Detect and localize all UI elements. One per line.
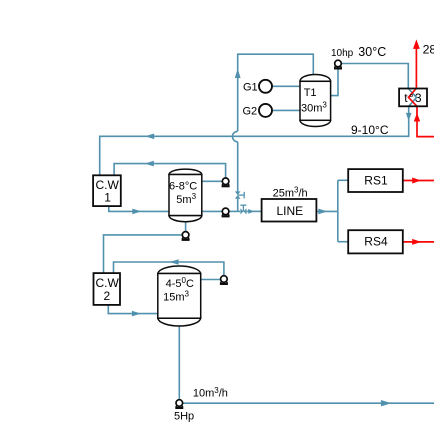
pump P5 (5Hp bottom) <box>175 400 183 408</box>
wire: G2 to T1 <box>272 109 300 111</box>
blue flow arrows <box>132 69 412 407</box>
wire: pump P2 to junction and valve V2 <box>229 210 240 212</box>
jump arc over 9-10C line <box>232 131 237 142</box>
pump P1 (tank 6-8 top) <box>222 178 230 186</box>
circle G2 <box>259 104 272 117</box>
svg-text:1: 1 <box>104 190 111 204</box>
wire: valve V1 up to jump arc <box>237 142 239 192</box>
arrow right on 5Hp discharge <box>381 400 391 406</box>
arrow up top (28) <box>413 39 420 49</box>
wire: 10hp pump to HX t3 top <box>342 64 409 89</box>
arrow right valve to LINE <box>248 209 254 214</box>
arrow right RS1 <box>412 178 421 184</box>
valve V1 (vertical) on riser <box>235 191 241 198</box>
wire: riser junction to valve V1 <box>237 199 239 212</box>
arrow right LINE outlet <box>318 209 327 215</box>
wire: 5Hp pump discharge to right edge <box>183 402 434 404</box>
svg-text:T1: T1 <box>304 87 317 99</box>
wire: C.W1 loop upper line <box>114 164 226 178</box>
pump P2 (tank 6-8 bottom) <box>222 208 230 216</box>
circle G1 <box>259 80 272 93</box>
wire: HX internal blue crossing <box>408 89 416 107</box>
RS1 box <box>348 169 403 192</box>
arrow up into HX bottom <box>414 113 420 122</box>
wire: tank 6-8 right outlet to pump P2 <box>202 210 222 212</box>
arrow left on 9-10C line <box>145 134 154 140</box>
wire: tank 4-5 bottom to 5Hp pump <box>178 326 180 399</box>
svg-text:28: 28 <box>423 42 434 56</box>
wire: branch to RS1 <box>338 179 348 181</box>
wire: HX internal red crossing <box>409 89 418 107</box>
svg-text:30°C: 30°C <box>358 45 386 59</box>
svg-text:G2: G2 <box>243 105 258 117</box>
svg-text:t°3: t°3 <box>404 91 423 105</box>
svg-text:10m3/h: 10m3/h <box>193 386 228 400</box>
arrow left on C.W1 loop line <box>145 161 154 167</box>
C.W 1 box <box>93 175 121 206</box>
svg-text:10hp: 10hp <box>331 48 354 59</box>
svg-text:25m3/h: 25m3/h <box>273 186 308 200</box>
tank T1 <box>300 75 331 127</box>
svg-text:6-8°C: 6-8°C <box>169 180 197 192</box>
tank 6-8°C <box>169 169 202 222</box>
wire: C.W1 bottom to tank 6-8 left <box>109 206 169 211</box>
svg-text:RS1: RS1 <box>364 173 388 187</box>
arrow right RS4 <box>412 239 421 245</box>
wire: split header vertical <box>337 180 339 241</box>
wire: valve V2 to LINE box inlet <box>247 210 262 212</box>
arrow up on supply riser <box>235 69 241 79</box>
heat exchanger t°3 <box>399 89 427 107</box>
svg-text:LINE: LINE <box>277 204 304 218</box>
wire: branch to RS4 <box>338 241 348 243</box>
pump P4 (tank 4-5 right) <box>220 276 228 284</box>
pump 10hp <box>334 60 342 68</box>
svg-text:4-50C: 4-50C <box>166 276 194 290</box>
wire: pump P3 to C.W 2 top <box>104 235 183 273</box>
arrow right C.W2 to tank <box>132 311 141 317</box>
wire: C.W2 loop upper line from pump P4 <box>114 262 224 276</box>
svg-text:5Hp: 5Hp <box>174 411 194 422</box>
pump P3 (below tank 6-8) <box>182 232 190 240</box>
wire: HX bottom to 9-10C return line to C.W 1 <box>100 106 409 175</box>
wire: tank 6-8 to pump P1 <box>202 180 222 182</box>
wire: G1 to T1 <box>272 85 300 87</box>
svg-text:2: 2 <box>104 289 111 303</box>
C.W 2 box <box>94 273 121 305</box>
arrow right C.W1 to tank <box>132 209 141 215</box>
RS4 box <box>348 230 403 253</box>
valve V2 (horizontal) before LINE <box>240 208 246 214</box>
svg-text:RS4: RS4 <box>364 235 388 249</box>
wire: riser to top corner and down into T1 top <box>238 54 314 131</box>
wire: T1 outlet to 10hp pump <box>331 67 338 95</box>
svg-text:G1: G1 <box>243 81 258 93</box>
wire: LINE outlet to split node <box>316 210 337 212</box>
wire: RS4 outlet <box>403 241 434 243</box>
svg-text:C.W: C.W <box>96 276 120 290</box>
wire: RS1 outlet <box>403 180 434 182</box>
wire: hot return from right edge to HX <box>417 106 434 136</box>
tank 4-5°C <box>158 266 201 326</box>
wire: C.W2 bottom to tank 4-5 left <box>108 305 158 314</box>
arrow left on C.W2 loop line <box>170 259 179 265</box>
LINE box <box>262 199 317 222</box>
svg-text:9-10°C: 9-10°C <box>351 123 389 137</box>
wire: HX top to up arrow <box>415 48 417 89</box>
arrow down HX outlet <box>406 113 412 121</box>
wire: tank 6-8 bottom to pump P3 <box>185 221 187 231</box>
wire: tank 4-5 to pump P4 <box>201 279 221 281</box>
